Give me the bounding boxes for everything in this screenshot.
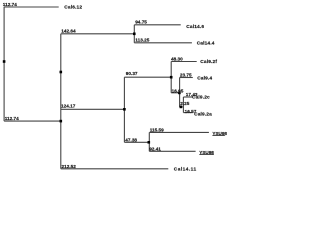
svg-text:47.38: 47.38 [125,138,137,143]
svg-text:Cal9.2c: Cal9.2c [192,95,210,101]
svg-text:90.37: 90.37 [126,71,138,76]
svg-text:Cal9.4: Cal9.4 [197,75,212,81]
svg-text:112.74: 112.74 [3,2,17,7]
svg-text:Cal9.2a: Cal9.2a [194,112,212,118]
svg-text:113.25: 113.25 [135,38,149,43]
svg-text:Cal6.12: Cal6.12 [64,5,82,11]
svg-text:23.75: 23.75 [180,73,192,78]
svg-text:Cal14.4: Cal14.4 [197,40,215,46]
svg-text:16.95: 16.95 [172,88,184,93]
svg-text:115.59: 115.59 [150,128,164,133]
svg-text:94.75: 94.75 [135,20,147,25]
svg-text:YSU98: YSU98 [212,131,227,136]
svg-text:112.74: 112.74 [5,116,19,121]
svg-text:48.30: 48.30 [171,57,183,62]
svg-text:92.41: 92.41 [149,147,161,152]
svg-text:142.64: 142.64 [61,29,76,34]
svg-text:YSU98: YSU98 [199,150,214,155]
svg-text:212.52: 212.52 [62,164,77,169]
svg-text:Cal14.6: Cal14.6 [186,24,204,30]
svg-text:2.25: 2.25 [180,101,190,106]
svg-text:Cal14.11: Cal14.11 [174,166,197,172]
svg-text:Cal9.2f: Cal9.2f [200,59,217,65]
svg-text:124.17: 124.17 [61,103,76,108]
